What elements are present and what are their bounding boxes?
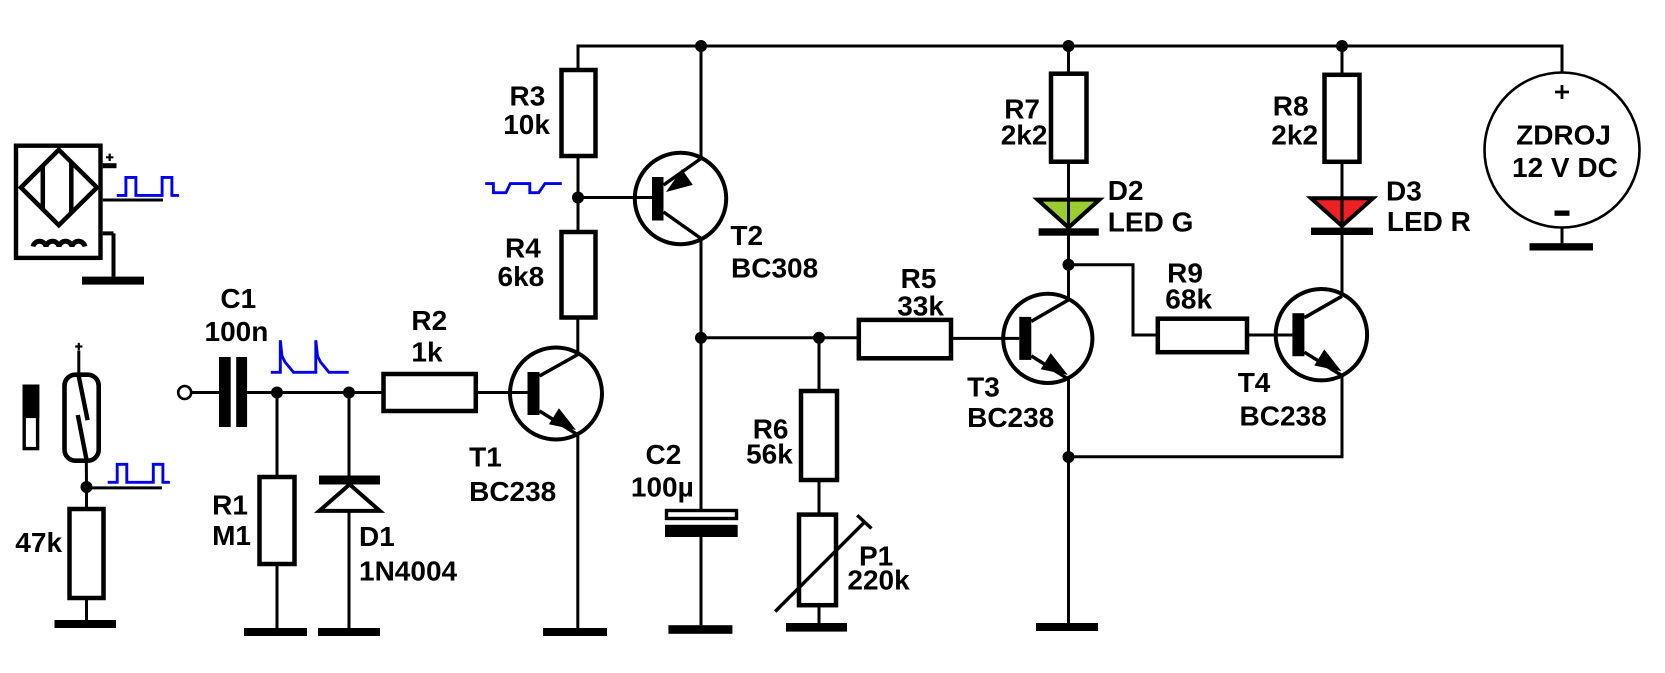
svg-text:56k: 56k (746, 438, 793, 469)
wire T1 emitter to ground (576, 435, 579, 628)
resistor R6 (801, 391, 837, 480)
wire D1 to ground (348, 511, 351, 628)
svg-text:R3: R3 (510, 81, 546, 112)
led D2 (1038, 200, 1100, 236)
svg-text:R8: R8 (1273, 90, 1309, 121)
ground 47k (55, 620, 117, 628)
svg-text:33k: 33k (897, 291, 944, 322)
terminal input (178, 386, 191, 399)
diode D1 (319, 476, 380, 511)
wire P1 to ground (818, 605, 821, 623)
svg-text:BC238: BC238 (967, 402, 1054, 433)
wire R8 to rail (1341, 46, 1344, 75)
svg-text:LED R: LED R (1387, 206, 1471, 237)
node rail-R7 (1063, 40, 1075, 52)
waveform square pulses at sensor K1 output (117, 177, 179, 195)
ground T1 (543, 628, 607, 636)
svg-text:100n: 100n (205, 316, 269, 347)
waveform square pulses at reed output (108, 464, 170, 482)
svg-text:D3: D3 (1386, 175, 1422, 206)
transistor T1 (510, 348, 602, 440)
node T3 collector-D2-R9 (1063, 259, 1075, 271)
ground T3 (1036, 623, 1098, 631)
wire R8 to D3 (1341, 162, 1344, 199)
wire R7 to rail (1067, 46, 1070, 74)
node rail-R8 (1336, 40, 1348, 52)
ground D1 (318, 628, 380, 636)
svg-text:47k: 47k (15, 527, 62, 558)
wire node to C2 (700, 338, 703, 509)
magnet bar (23, 385, 40, 449)
wire T2 emitter to rail (700, 46, 703, 159)
wire D2 anode to node (1067, 236, 1070, 265)
svg-text:LED G: LED G (1108, 206, 1194, 237)
svg-text:10k: 10k (503, 109, 550, 140)
svg-text:M1: M1 (212, 520, 251, 551)
transistor T3 (1003, 294, 1092, 383)
node T3 emitter-T4 emitter (1063, 451, 1075, 463)
resistor R3 (562, 70, 596, 156)
svg-text:ZDROJ: ZDROJ (1516, 120, 1611, 151)
svg-text:BC238: BC238 (469, 476, 556, 507)
wire R7 to D2 (1067, 162, 1070, 200)
transistor T2 (635, 153, 726, 244)
node reed output (81, 481, 93, 493)
wire top supply rail (578, 45, 1562, 48)
wire rail right drop to ZDROJ (1561, 45, 1564, 74)
svg-text:68k: 68k (1165, 284, 1212, 315)
ground R1 (244, 628, 307, 636)
resistor 47k (70, 509, 104, 598)
wire R2 to T1 base (476, 391, 528, 394)
label + of reed contact (75, 343, 82, 350)
capacitor C1 (219, 357, 247, 427)
svg-text:1N4004: 1N4004 (359, 555, 458, 586)
svg-text:BC238: BC238 (1240, 400, 1327, 431)
power source ZDROJ (1485, 73, 1640, 228)
svg-text:C1: C1 (220, 283, 256, 314)
node R3-R4-T2 base (572, 192, 584, 204)
resistor R7 (1051, 74, 1087, 162)
svg-text:12 V DC: 12 V DC (1512, 152, 1618, 183)
wire sensor K1 ground pin (103, 233, 114, 276)
svg-text:T1: T1 (469, 442, 502, 473)
wire R9 to T4 base (1247, 334, 1292, 337)
potentiometer P1 (775, 515, 871, 612)
wire R1 to ground (276, 564, 279, 628)
svg-text:R1: R1 (212, 490, 248, 521)
wire node to R6 (818, 338, 821, 391)
svg-text:R4: R4 (505, 233, 541, 264)
node T2 collector-C2-R5 (695, 332, 707, 344)
resistor R8 (1325, 75, 1360, 162)
wire through D3 (1341, 198, 1344, 235)
wire node to T2 base (578, 196, 652, 199)
ground ZDROJ (1530, 243, 1594, 250)
capacitor C2 (665, 511, 738, 538)
svg-text:1k: 1k (411, 337, 443, 368)
wire terminal to C1 (191, 391, 219, 394)
wire T1 collector to R4 (576, 318, 579, 355)
svg-text:D1: D1 (359, 521, 395, 552)
waveform spikes after C1 (271, 340, 349, 372)
wire 47k to ground (85, 598, 88, 620)
wire node to D1 (348, 393, 351, 476)
waveform at T2 base (485, 184, 562, 193)
wire T4 emitter to T3 emitter (1069, 376, 1343, 457)
ground sensor K1 (82, 277, 144, 285)
wire reed bottom to node (85, 458, 88, 487)
wire node to R1 (276, 393, 279, 478)
resistor R2 (384, 374, 476, 411)
wire R5 to T3 base (951, 337, 1019, 340)
led D3 (1311, 198, 1373, 235)
svg-text:D2: D2 (1108, 175, 1144, 206)
wire through D2 (1067, 200, 1070, 236)
wire reed output stub (87, 486, 162, 489)
svg-text:T2: T2 (730, 220, 763, 251)
svg-text:BC308: BC308 (731, 252, 818, 283)
svg-text:100µ: 100µ (631, 471, 694, 502)
resistor R1 (260, 477, 295, 564)
resistor R4 (562, 232, 596, 318)
resistor R5 (859, 320, 951, 358)
wire T4 collector to D3 (1341, 235, 1344, 296)
ground P1 (786, 623, 847, 632)
wire branch node to R9 (1069, 265, 1158, 335)
wire node to 47k (85, 487, 88, 509)
wire reed top (77, 351, 80, 379)
wire rail left drop to R3 (577, 45, 580, 71)
wire T2 collector down (700, 239, 703, 338)
svg-text:6k8: 6k8 (498, 261, 545, 292)
wire R6 to P1 (818, 480, 821, 515)
svg-text:R2: R2 (411, 305, 447, 336)
svg-text:C2: C2 (646, 439, 682, 470)
wire ZDROJ to ground (1561, 228, 1564, 244)
wire mid horizontal to R5 (701, 336, 859, 339)
svg-text:220k: 220k (847, 565, 910, 596)
wire C2 to ground (700, 537, 703, 625)
svg-text:2k2: 2k2 (1001, 120, 1048, 151)
svg-text:2k2: 2k2 (1271, 120, 1318, 151)
sensor K1 piezo pickup box (16, 146, 101, 258)
label + of sensor K1 (106, 154, 113, 161)
wire T3 emitter down (1067, 379, 1070, 623)
svg-text:T4: T4 (1238, 367, 1271, 398)
ground C2 (668, 625, 732, 634)
transistor T4 (1276, 289, 1367, 380)
reed switch S1 (65, 375, 99, 461)
resistor R9 (1158, 319, 1247, 353)
node R6 tap (813, 332, 825, 344)
wire sensor K1 output stub (103, 199, 163, 202)
pin + stub of sensor K1 (103, 163, 117, 168)
svg-text:R5: R5 (901, 263, 937, 294)
wire C1 to R2 (247, 391, 383, 394)
svg-text:T3: T3 (967, 372, 1000, 403)
node rail-T2 emitter (695, 40, 707, 52)
wire R3 to R4 (577, 156, 580, 232)
node R1-D1 (343, 387, 355, 399)
wire T3 collector up (1067, 265, 1070, 300)
node C1-R1 (271, 387, 283, 399)
